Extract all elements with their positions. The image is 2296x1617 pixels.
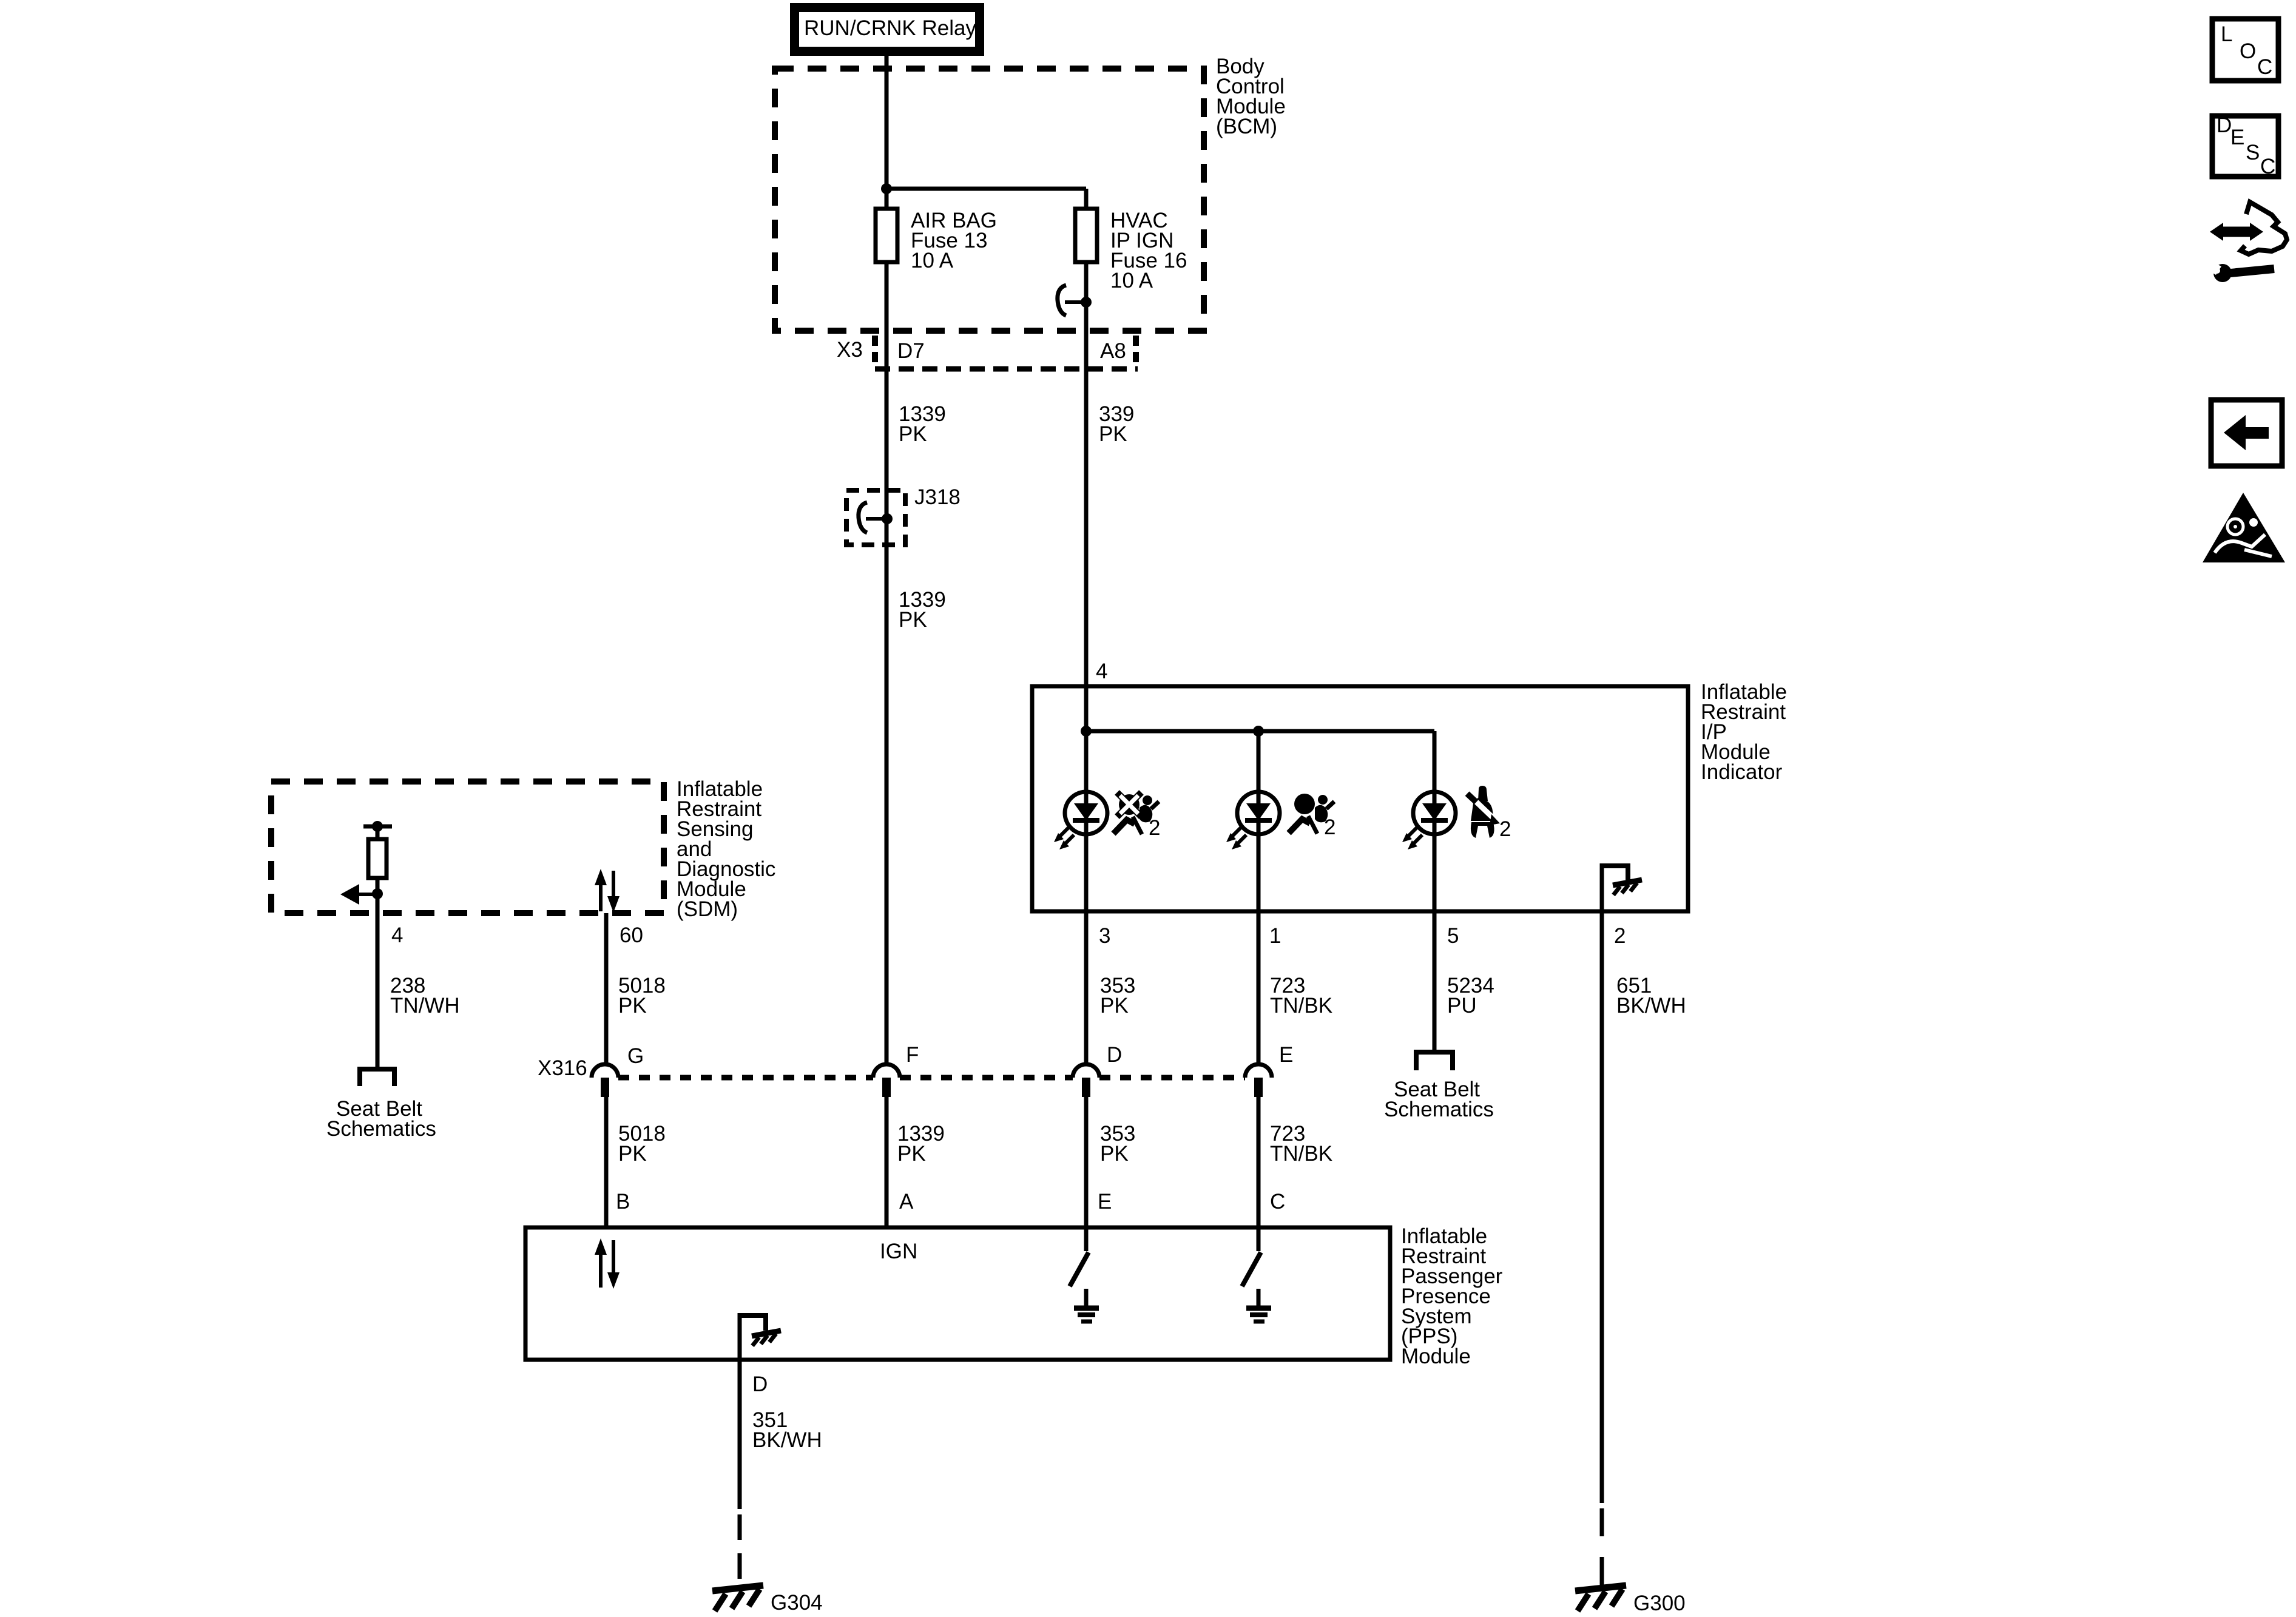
label Inflatable Restraint I/P Module Indicator xyxy=(1701,680,1787,784)
switch to ground at pin C inside PPS xyxy=(1242,1226,1271,1322)
icon box back arrow xyxy=(2211,400,2282,466)
module box Inflatable Restraint I/P Module Indicator xyxy=(1032,686,1688,911)
wire label 353 PK (lower) xyxy=(1100,1122,1135,1166)
fuse F13 AIR BAG xyxy=(876,209,997,272)
icon warning triangle (airbag caution) xyxy=(2203,493,2285,562)
icon box LOC xyxy=(2212,19,2278,81)
wire label 5234 PU xyxy=(1447,974,1494,1018)
splice hook inside BCM on HVAC fuse output xyxy=(1058,285,1092,316)
wire SDM pin 60 down to X316 xyxy=(604,913,609,1064)
LED lamp 3 (seat belt indicator) xyxy=(1402,792,1456,849)
svg-text:10 A: 10 A xyxy=(1110,269,1153,292)
svg-text:1: 1 xyxy=(1269,924,1281,948)
wire 1339 PK X316 to PPS pin A xyxy=(885,1097,889,1226)
connector X316 cavity F xyxy=(873,1043,919,1097)
svg-text:PK: PK xyxy=(618,1142,647,1166)
connector X316 cavity G xyxy=(592,1044,644,1097)
LED lamp 2 (AIR BAG indicator) xyxy=(1226,792,1280,849)
node bus junction second LED branch xyxy=(1253,726,1264,737)
icon fasten seat belt (occupant with belt) xyxy=(1467,786,1511,841)
svg-text:BK/WH: BK/WH xyxy=(1616,994,1686,1018)
ground hook inside indicator module xyxy=(1600,863,1642,913)
LED lamp 1 (AIR BAG OFF indicator) xyxy=(1054,792,1107,849)
ground hook inside PPS xyxy=(738,1313,781,1362)
connector X316 dashed line G-F xyxy=(618,1075,873,1081)
svg-text:2: 2 xyxy=(1614,924,1626,948)
arrow to seat belt schematics xyxy=(340,884,377,905)
label Seat Belt Schematics (left) xyxy=(326,1097,436,1141)
svg-text:C: C xyxy=(2260,155,2275,178)
module box SDM (dashed) xyxy=(271,781,664,913)
label Body Control Module (BCM) xyxy=(1216,55,1286,138)
wire PPS pin D to G304 xyxy=(738,1362,742,1509)
wire HVAC fuse output down xyxy=(1084,262,1089,1064)
svg-text:TN/BK: TN/BK xyxy=(1270,1142,1332,1166)
wire label 5018 PK (upper) xyxy=(618,974,666,1018)
svg-text:3: 3 xyxy=(1099,924,1110,948)
resistor inside SDM xyxy=(363,821,392,878)
svg-text:E: E xyxy=(1279,1043,1293,1067)
connector X316 cavity E xyxy=(1245,1043,1293,1097)
module box PPS xyxy=(525,1227,1390,1360)
svg-text:D: D xyxy=(752,1372,768,1396)
svg-text:C: C xyxy=(1270,1190,1285,1214)
svg-text:60: 60 xyxy=(620,923,643,947)
wire label 339 PK xyxy=(1099,402,1134,446)
wire label 1339 PK (bottom) xyxy=(897,1122,945,1166)
label Seat Belt Schematics (right) xyxy=(1384,1078,1494,1121)
svg-text:A: A xyxy=(899,1190,914,1214)
wire 353 PK X316 to PPS pin E xyxy=(1084,1097,1089,1226)
svg-text:TN/BK: TN/BK xyxy=(1270,994,1332,1018)
svg-text:F: F xyxy=(906,1043,919,1067)
connector X3 (BCM) xyxy=(837,336,1138,369)
svg-text:RUN/CRNK Relay: RUN/CRNK Relay xyxy=(804,16,976,40)
svg-text:TN/WH: TN/WH xyxy=(390,994,460,1018)
label Inflatable Restraint Sensing and Diagnostic Module (SDM) xyxy=(677,777,775,921)
svg-text:PU: PU xyxy=(1447,994,1477,1018)
svg-text:(BCM): (BCM) xyxy=(1216,115,1277,138)
wire ground 651 to G300 xyxy=(1600,913,1604,1503)
svg-text:2: 2 xyxy=(1149,816,1160,840)
svg-text:PK: PK xyxy=(899,422,927,446)
ground G304 xyxy=(712,1585,823,1615)
wire from RUN/CRNK Relay into BCM xyxy=(885,53,889,209)
svg-text:PK: PK xyxy=(899,608,927,632)
svg-text:5: 5 xyxy=(1447,924,1459,948)
svg-text:A8: A8 xyxy=(1100,339,1126,363)
wire second LED branch xyxy=(1257,731,1261,1064)
svg-text:(SDM): (SDM) xyxy=(677,897,738,921)
svg-text:O: O xyxy=(2240,39,2256,63)
svg-text:PK: PK xyxy=(1099,422,1127,446)
off-page bracket to Seat Belt Schematics (right) xyxy=(1416,1052,1453,1070)
wire 5018 PK X316 to PPS pin B xyxy=(604,1097,609,1226)
svg-text:S: S xyxy=(2246,141,2260,164)
wire internal bus of indicator module xyxy=(1086,729,1434,734)
svg-text:E: E xyxy=(1098,1190,1112,1214)
svg-text:Module: Module xyxy=(1401,1345,1471,1368)
svg-text:B: B xyxy=(616,1190,630,1214)
node junction at fuse feed xyxy=(881,183,892,194)
svg-text:PK: PK xyxy=(618,994,647,1018)
icon connector repair (double arrow, terminal outline, wrench) xyxy=(2207,202,2287,282)
wire feed to HVAC fuse xyxy=(886,187,1086,191)
svg-text:IGN: IGN xyxy=(880,1240,917,1263)
svg-text:4: 4 xyxy=(1096,660,1107,683)
svg-text:E: E xyxy=(2230,126,2244,149)
svg-text:C: C xyxy=(2257,55,2272,79)
wire label 1339 PK (lower) xyxy=(899,588,946,632)
bidirectional signal arrows inside SDM xyxy=(595,869,620,913)
svg-text:BK/WH: BK/WH xyxy=(752,1428,822,1452)
svg-text:PK: PK xyxy=(1100,994,1129,1018)
connector X316 dashed line F-D xyxy=(900,1075,1073,1081)
wire label 723 TN/BK (upper) xyxy=(1270,974,1332,1018)
wire label 723 TN/BK (lower) xyxy=(1270,1122,1332,1166)
off-page bracket to Seat Belt Schematics (left) xyxy=(360,1069,394,1086)
svg-text:D: D xyxy=(1107,1043,1122,1067)
svg-text:X316: X316 xyxy=(538,1056,587,1080)
svg-text:G304: G304 xyxy=(771,1591,823,1615)
svg-text:PK: PK xyxy=(1100,1142,1129,1166)
svg-text:Schematics: Schematics xyxy=(1384,1098,1494,1121)
label Inflatable Restraint Passenger Presence System (PPS) Module xyxy=(1401,1224,1503,1368)
wire third LED branch xyxy=(1433,731,1437,1050)
connector X316 dashed line D-E xyxy=(1099,1075,1245,1081)
wire from resistor to pin 4 xyxy=(376,878,380,1067)
svg-text:J318: J318 xyxy=(914,485,961,509)
connector X316 cavity D xyxy=(1073,1043,1122,1097)
ground G300 xyxy=(1575,1585,1686,1615)
svg-text:D7: D7 xyxy=(897,339,925,363)
svg-text:Indicator: Indicator xyxy=(1701,760,1783,784)
svg-text:X3: X3 xyxy=(837,338,863,362)
svg-text:D: D xyxy=(2217,113,2232,137)
icon passenger airbag off (crossed circle + occupant) xyxy=(1113,792,1160,840)
bidirectional signal arrows inside PPS xyxy=(595,1238,620,1289)
svg-text:G: G xyxy=(627,1044,644,1068)
svg-text:PK: PK xyxy=(897,1142,926,1166)
icon box DESC xyxy=(2212,113,2278,178)
wire label 351 BK/WH xyxy=(752,1408,822,1452)
svg-text:G300: G300 xyxy=(1633,1592,1686,1615)
wire AIR BAG fuse output down through BCM connector xyxy=(885,262,889,1064)
fuse F16 HVAC IP IGN xyxy=(1075,209,1187,292)
node junction at arrow xyxy=(372,888,383,899)
wire 723 TN/BK X316 to PPS pin C xyxy=(1257,1097,1261,1226)
svg-text:2: 2 xyxy=(1324,815,1335,839)
wire label 1339 PK (upper) xyxy=(899,402,946,446)
splice J318 xyxy=(846,485,961,545)
svg-text:2: 2 xyxy=(1499,817,1511,841)
wire label 238 TN/WH xyxy=(390,974,460,1018)
svg-text:10 A: 10 A xyxy=(911,249,954,272)
module box BCM (dashed) xyxy=(775,69,1204,331)
node bus junction pin4 branch xyxy=(1081,726,1092,737)
svg-text:L: L xyxy=(2221,22,2232,46)
icon airbag (circle + occupant) xyxy=(1289,794,1335,839)
svg-text:4: 4 xyxy=(391,923,403,947)
RUN/CRNK Relay power label box xyxy=(790,3,984,56)
wire label 353 PK (upper) xyxy=(1100,974,1135,1018)
switch to ground at pin E inside PPS xyxy=(1070,1226,1099,1322)
wire label 651 BK/WH xyxy=(1616,974,1686,1018)
svg-text:Schematics: Schematics xyxy=(326,1117,436,1141)
wire label 5018 PK (lower) xyxy=(618,1122,666,1166)
